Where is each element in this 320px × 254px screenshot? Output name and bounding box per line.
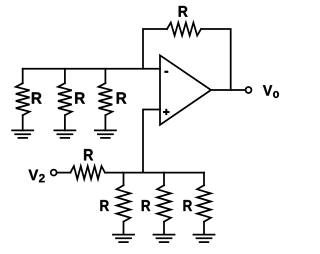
label R (of R1) xyxy=(32,92,42,103)
label R (of R5) xyxy=(142,200,151,211)
wire: op-amp output xyxy=(211,89,245,91)
label Vo xyxy=(263,85,279,98)
label R (of R2) xyxy=(75,92,85,103)
op-amp inverting pin mark (-) xyxy=(164,71,168,73)
label R (of R4) xyxy=(100,200,109,211)
label R (of R3) xyxy=(117,92,127,103)
terminal Vo (open circle) xyxy=(246,87,252,93)
label R (series resistor) xyxy=(84,149,93,160)
ground (below R3) xyxy=(94,130,117,138)
wire: bottom bus xyxy=(105,172,204,174)
wire: feedback up-left from inverting input bus xyxy=(143,29,167,69)
label R (feedback resistor) xyxy=(179,6,188,17)
terminal V2 (open circle) xyxy=(51,170,57,176)
wire: inverting input bus xyxy=(23,68,160,70)
ground (below R2) xyxy=(54,130,77,138)
ground (below R1) xyxy=(11,130,34,138)
ground (below R6) xyxy=(193,235,216,243)
resistor R2 (inverting bank, vertical) xyxy=(58,69,72,131)
wire: V2 terminal to series resistor xyxy=(57,172,70,174)
resistor R3 (inverting bank, vertical) xyxy=(99,69,113,131)
ground (below R4) xyxy=(112,235,135,243)
wire: feedback right, down to output node xyxy=(201,29,231,90)
wire: non-inverting input to bottom bus xyxy=(143,110,160,173)
resistor R4 (non-inverting bank, vertical) xyxy=(117,173,131,235)
label R (of R6) xyxy=(183,200,192,211)
resistor R5 (non-inverting bank, vertical) xyxy=(157,173,171,235)
resistor R feedback (horizontal zigzag) xyxy=(167,23,201,36)
resistor R1 (inverting bank, vertical) xyxy=(16,69,30,131)
resistor R6 (non-inverting bank, vertical) xyxy=(197,173,211,235)
op-amp non-inverting pin mark (+) xyxy=(163,109,170,115)
resistor R in series with V2 (horizontal zigzag) xyxy=(70,166,105,179)
ground (below R5) xyxy=(153,235,176,243)
op-amp U1 (triangle) xyxy=(160,55,211,125)
label V2 xyxy=(29,170,45,183)
